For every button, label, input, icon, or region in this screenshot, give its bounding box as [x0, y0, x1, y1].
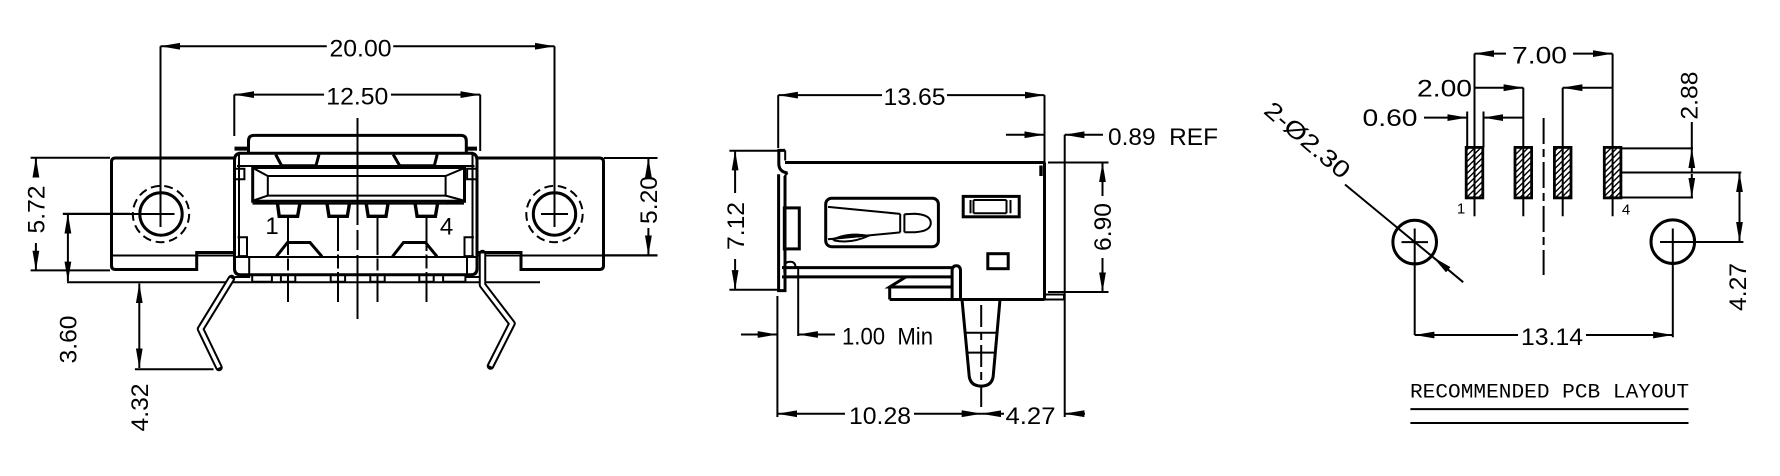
dim 6.90: [1048, 163, 1117, 293]
svg-text:5.72: 5.72: [24, 186, 51, 234]
left hole cross horizontal: [63, 213, 175, 215]
top window inner: [971, 200, 1011, 213]
pin collar 1: [281, 275, 295, 282]
notch bar right: [393, 155, 437, 166]
tongue inner: [268, 176, 446, 196]
shell band top line: [235, 256, 478, 258]
pin bend down: [952, 266, 960, 300]
body corner notch: [1039, 166, 1042, 177]
latch lens: [833, 235, 869, 242]
pin collar 3: [370, 275, 384, 282]
dim 5.20: [604, 158, 663, 255]
latch fork verticals: [900, 214, 904, 233]
latch lens inner: [841, 235, 861, 237]
latch D bulge: [904, 214, 930, 232]
svg-text:0.89 REF: 0.89 REF: [1108, 124, 1218, 151]
notch bar left: [276, 155, 319, 166]
dim 10.28: [777, 296, 981, 430]
peg centerline: [980, 305, 982, 410]
pin line 3: [377, 217, 379, 302]
svg-text:0.60: 0.60: [1363, 105, 1418, 132]
shell ear right: [467, 169, 476, 180]
ground line: [67, 281, 540, 283]
wide tab left: [252, 275, 272, 282]
foot pad 0.89: [1045, 295, 1065, 300]
shell ear left lower: [238, 237, 247, 256]
right flange outline: [477, 158, 604, 270]
leader tail arrow: [1433, 257, 1463, 282]
svg-text:4.32: 4.32: [127, 384, 154, 432]
svg-text:4.27: 4.27: [1006, 403, 1056, 430]
shell top corner tabs: [235, 148, 478, 150]
dim 0.60: [1363, 105, 1524, 147]
right hole cross: [1660, 229, 1743, 338]
dim 2.88: [1621, 72, 1704, 198]
svg-text:13.14: 13.14: [1521, 324, 1583, 351]
side plate lower: [779, 174, 785, 290]
svg-text:12.50: 12.50: [326, 84, 388, 111]
bracket step: [890, 277, 952, 300]
dim 7.12: [723, 151, 780, 290]
right hole pcb: [1651, 220, 1695, 264]
right mounting hole dashed circle: [526, 186, 582, 242]
body bottom line: [890, 298, 1045, 301]
shell inner walls: [239, 153, 473, 256]
svg-text:5.20: 5.20: [636, 176, 663, 224]
pad 1: [1466, 121, 1483, 216]
body corner step right: [467, 257, 482, 277]
pin strip: [782, 268, 952, 277]
right flange crease line: [477, 255, 658, 257]
pin collar 4: [419, 275, 433, 282]
plate window: [784, 208, 799, 249]
dim 5.72: [24, 158, 110, 271]
left flange crease line: [112, 255, 235, 257]
hat bump right: [393, 243, 438, 257]
contact 3: [366, 204, 388, 217]
tongue bevel tl: [254, 168, 268, 176]
contact 2: [327, 204, 350, 217]
pin collar 2: [331, 275, 345, 282]
plate foot: [784, 286, 786, 291]
pad 3: [1554, 145, 1571, 216]
svg-text:20.00: 20.00: [330, 35, 392, 62]
right mounting hole solid circle: [533, 193, 575, 235]
shell ear right lower: [465, 237, 474, 256]
dim 0.89 REF: [1006, 124, 1218, 417]
left flange outline: [112, 158, 235, 270]
dim 4.32: [127, 284, 214, 432]
svg-text:2.88: 2.88: [1677, 72, 1704, 120]
svg-text:1: 1: [1457, 201, 1465, 218]
svg-text:6.90: 6.90: [1090, 203, 1117, 251]
hat bump left: [276, 243, 322, 257]
left hole pcb: [1393, 220, 1437, 264]
title underline 1: [1410, 408, 1688, 410]
body corner step left: [235, 257, 250, 277]
tongue bevel bl: [254, 196, 268, 201]
svg-text:RECOMMENDED PCB LAYOUT: RECOMMENDED PCB LAYOUT: [1410, 381, 1689, 404]
dim 4.27 right: [1621, 173, 1752, 312]
dim 13.14: [1415, 324, 1673, 351]
top window: [963, 196, 1019, 216]
svg-text:7.12: 7.12: [723, 202, 750, 250]
tongue bottom face: [253, 203, 465, 205]
left mounting hole solid circle: [140, 193, 182, 235]
dim 12.50 line: [234, 84, 480, 151]
dim 20.00 line: [161, 35, 555, 227]
pin line 4: [426, 217, 428, 302]
contact 4: [415, 204, 438, 217]
right hole cross horizontal: [541, 213, 568, 215]
pin line 1: [287, 217, 289, 302]
left mounting hole dashed circle: [133, 186, 189, 242]
contact 1: [278, 204, 300, 217]
shell ear left: [235, 169, 244, 180]
tongue outer: [253, 168, 465, 202]
latch outer: [826, 198, 939, 247]
dim 13.65: [778, 84, 1044, 163]
pad 4: [1604, 145, 1621, 216]
tongue bevel tr: [446, 168, 464, 176]
body top line: [785, 161, 1045, 164]
plate top strip inner edge: [785, 150, 788, 176]
pin line 2: [337, 217, 339, 302]
peg lines: [966, 333, 997, 353]
center line vertical: [357, 118, 359, 319]
peg: [962, 300, 1000, 387]
top cap: [249, 135, 467, 152]
svg-text:1: 1: [265, 213, 278, 240]
dim 1.00 Min: [741, 266, 933, 351]
right leg: [483, 254, 513, 367]
svg-text:2.00: 2.00: [1417, 75, 1472, 102]
pad 2: [1515, 145, 1532, 216]
leader line through hole: [1345, 185, 1433, 258]
svg-text:13.65: 13.65: [884, 84, 946, 111]
pin strip left hook: [784, 262, 795, 273]
svg-text:4.27: 4.27: [1725, 263, 1752, 311]
svg-text:1.00 Min: 1.00 Min: [842, 324, 933, 351]
dim 4.27 middle: [981, 403, 1085, 430]
title underline 2: [1410, 422, 1688, 424]
svg-text:7.00: 7.00: [1512, 43, 1567, 70]
pcb centerline: [1543, 118, 1545, 275]
dim 2.00: [1417, 75, 1613, 145]
tongue bevel br: [446, 196, 464, 201]
latch upper jaw: [828, 207, 900, 214]
side plate top strip and hook bowl: [779, 150, 788, 173]
dim 7.00: [1475, 43, 1613, 145]
left leg: [201, 279, 232, 368]
latch lower jaw: [828, 232, 900, 239]
small square: [988, 254, 1008, 269]
shell inner line under notches: [237, 165, 475, 167]
svg-text:10.28: 10.28: [849, 403, 911, 430]
svg-text:3.60: 3.60: [56, 316, 83, 364]
wide tab right: [443, 275, 465, 282]
left hole cross: [1402, 229, 1429, 336]
dim 3.60: [56, 214, 130, 364]
svg-text:4: 4: [1622, 202, 1630, 219]
svg-text:4: 4: [440, 214, 453, 241]
body right edge: [1043, 163, 1046, 300]
shell outline: [235, 153, 478, 275]
